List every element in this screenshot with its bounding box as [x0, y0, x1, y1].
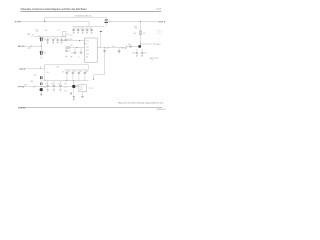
svg-text:VR1: VR1 — [27, 34, 30, 36]
capacitor C61 — [66, 70, 71, 81]
capacitor C62 — [72, 70, 77, 81]
wire: feed to lower sheet — [94, 75, 105, 79]
svg-text:R41: R41 — [112, 46, 115, 48]
wire: right input line — [127, 46, 139, 48]
capacitor C33 — [81, 27, 86, 34]
wire: right branch vertical — [140, 21, 142, 44]
wire: rail B2 — [45, 80, 89, 82]
svg-text:R52: R52 — [134, 33, 137, 35]
svg-text:C31: C31 — [74, 28, 77, 30]
wire: riser to bypass line — [44, 17, 46, 21]
node: bus junction A — [44, 21, 45, 22]
svg-text:UNSW B+: UNSW B+ — [158, 22, 167, 24]
svg-text:Schematics, Component Location: Schematics, Component Location Diagrams,… — [21, 8, 88, 11]
svg-text:-O: -O — [152, 60, 153, 62]
svg-text:R51: R51 — [134, 26, 137, 28]
svg-text:C71: C71 — [45, 84, 48, 86]
svg-text:R80: R80 — [31, 81, 34, 83]
wire: B+ bus left segment — [15, 20, 90, 22]
svg-text:UNSWITCHED B+: UNSWITCHED B+ — [75, 15, 94, 17]
capacitor C63 — [78, 70, 83, 81]
svg-text:C41: C41 — [107, 47, 110, 49]
capacitor C4 — [47, 37, 51, 44]
svg-text:IN 1: IN 1 — [86, 44, 89, 46]
svg-text:C61: C61 — [68, 71, 71, 73]
node: off-page arrow — [93, 79, 94, 81]
svg-text:R11: R11 — [45, 30, 48, 32]
svg-text:C42: C42 — [121, 47, 124, 49]
wire: mid rail — [34, 36, 66, 38]
capacitor C72 — [58, 81, 62, 92]
wire: U3 ground stub — [81, 92, 83, 96]
svg-text:J2-1: J2-1 — [20, 69, 26, 71]
capacitor C32 — [77, 27, 82, 34]
capacitor C6 — [57, 37, 59, 43]
svg-text:R73: R73 — [64, 83, 67, 85]
svg-text:NOTE 1: NOTE 1 — [157, 31, 163, 33]
connector pin tick — [126, 46, 128, 48]
svg-text:R16 10K: R16 10K — [67, 39, 73, 41]
svg-text:PTT M: PTT M — [18, 87, 25, 89]
capacitor C42 — [118, 47, 124, 53]
svg-text:R75: R75 — [64, 91, 67, 93]
wire — [40, 91, 42, 94]
node: junction — [40, 45, 43, 48]
capacitor C5 — [52, 37, 56, 44]
svg-text:C13: C13 — [71, 53, 74, 55]
svg-text:TX INJ: TX INJ — [153, 44, 160, 46]
battery B1 — [105, 17, 107, 19]
svg-text:C82: C82 — [43, 87, 46, 89]
svg-text:OUT: OUT — [86, 53, 89, 55]
svg-text:C2: C2 — [58, 30, 60, 32]
node: collector junction — [139, 43, 142, 46]
capacitor C34 — [86, 27, 91, 34]
node: junction — [75, 46, 78, 49]
wire: vertical to rail B2 — [44, 65, 46, 81]
svg-text:OSC: OSC — [86, 47, 89, 49]
svg-text:5-15: 5-15 — [157, 9, 162, 11]
svg-text:C60: C60 — [46, 72, 49, 74]
ground — [73, 96, 75, 98]
wire: output line — [141, 43, 153, 45]
wire: control line from top — [100, 32, 102, 48]
transistor Q2 — [39, 51, 46, 60]
svg-text:C51: C51 — [143, 33, 146, 35]
svg-text:Q4: Q4 — [43, 80, 45, 82]
diode D2 — [33, 85, 36, 87]
svg-text:R21: R21 — [28, 48, 31, 50]
svg-text:C4: C4 — [49, 38, 51, 40]
node: junction — [103, 46, 106, 49]
wire: B+ bus right segment — [108, 20, 158, 22]
capacitor C55 — [129, 45, 131, 47]
svg-text:C63: C63 — [80, 71, 83, 73]
wire: line into IC pin 2 — [66, 47, 85, 49]
svg-text:C9: C9 — [40, 58, 42, 60]
op-amp U1 box — [85, 38, 98, 62]
svg-text:C33: C33 — [83, 28, 86, 30]
svg-text:68P81074C65: 68P81074C65 — [157, 109, 166, 111]
svg-text:C80: C80 — [34, 75, 37, 77]
capacitor C35 — [90, 27, 92, 34]
svg-text:R71: R71 — [51, 84, 54, 86]
node: pin dot — [84, 43, 85, 44]
varactor VR1 — [31, 34, 34, 36]
svg-text:Q1: Q1 — [44, 39, 46, 41]
svg-text:TO 2: TO 2 — [89, 88, 94, 90]
transistor Q4 — [40, 88, 43, 91]
diode D1 — [30, 45, 32, 47]
footer rule — [18, 107, 162, 109]
resistor R17 — [66, 47, 69, 49]
ground — [81, 95, 84, 97]
svg-text:Figure 5-4. Transmitter Schema: Figure 5-4. Transmitter Schematic Diagra… — [118, 102, 163, 105]
node: control stub terminal — [100, 31, 102, 32]
wire: Q1-Q2 vertical — [40, 41, 42, 51]
svg-text:220: 220 — [36, 31, 39, 33]
node: junction — [79, 40, 80, 41]
capacitor C75 — [70, 92, 72, 95]
svg-text:Q2: Q2 — [44, 53, 46, 55]
wire: stub up — [40, 66, 42, 69]
capacitor C56 — [141, 49, 147, 57]
svg-text:C5: C5 — [54, 38, 56, 40]
svg-text:C3: C3 — [39, 35, 41, 37]
wire: lower left input line — [18, 68, 45, 70]
svg-text:R54: R54 — [132, 52, 135, 54]
wire: IC output line — [97, 47, 127, 49]
svg-text:C32: C32 — [79, 28, 82, 30]
capacitor C8 — [65, 37, 67, 41]
capacitor C7 — [61, 37, 63, 43]
capacitor C41 — [103, 47, 109, 74]
capacitor C12 — [65, 49, 71, 57]
svg-text:R17: R17 — [70, 45, 73, 47]
svg-text:C72: C72 — [58, 84, 61, 86]
svg-text:C12: C12 — [68, 51, 71, 53]
node: junction — [40, 85, 43, 88]
svg-text:C56: C56 — [144, 52, 147, 54]
svg-text:C62: C62 — [74, 71, 77, 73]
svg-text:EN: EN — [86, 57, 88, 59]
wire: Q3 emitter — [73, 88, 75, 96]
svg-text:C64: C64 — [86, 71, 89, 73]
svg-text:GND: GND — [86, 50, 89, 52]
svg-text:R81: R81 — [24, 84, 27, 86]
transistor Q1 — [39, 37, 46, 41]
wire — [40, 79, 42, 82]
wire: cap row top rail — [65, 65, 89, 70]
regulator U2 small box — [62, 31, 66, 36]
svg-text:R60: R60 — [57, 67, 60, 69]
node: junction — [72, 79, 75, 82]
transistor Q3 — [72, 85, 75, 88]
svg-text:5-16 MB: 5-16 MB — [18, 108, 26, 110]
wire: lower mic line — [18, 86, 79, 88]
wire: bus step down — [89, 21, 105, 26]
node: bus junction B — [140, 21, 141, 22]
wire: Q3 collector — [73, 81, 75, 85]
svg-text:C55: C55 — [128, 44, 131, 46]
svg-text:R72: R72 — [62, 71, 65, 73]
wire: line into IC pin 1 — [60, 40, 84, 42]
header rule — [20, 10, 161, 12]
svg-text:BUF: BUF — [80, 89, 83, 91]
wire: bypass line top — [45, 16, 106, 18]
capacitor C64 — [84, 70, 89, 81]
wire: left input line MIC — [18, 45, 41, 47]
svg-text:R15: R15 — [70, 35, 73, 37]
capacitor C71 — [45, 81, 49, 92]
oscillator module U3 box — [79, 85, 86, 92]
ground — [40, 93, 43, 95]
svg-text:C74: C74 — [64, 87, 67, 89]
node: via dot — [73, 99, 74, 100]
capacitor C31 — [72, 27, 77, 34]
svg-text:Q3: Q3 — [76, 85, 78, 87]
resistor R71 — [51, 81, 55, 92]
capacitor C14 — [78, 48, 82, 58]
node: junction — [65, 79, 68, 82]
wire: cap row rail — [73, 26, 89, 28]
capacitor C13 — [71, 48, 77, 57]
svg-text:MIC HI: MIC HI — [18, 46, 25, 48]
resistor R54 — [132, 49, 138, 57]
wire: corner to bottom rail — [45, 65, 89, 69]
svg-text:VCC: VCC — [86, 41, 89, 43]
svg-text:U2: U2 — [67, 34, 69, 36]
transistor Q5 — [138, 45, 141, 48]
svg-text:1K: 1K — [135, 28, 137, 30]
capacitor C81 — [39, 83, 42, 86]
resistor R51 — [139, 31, 142, 35]
